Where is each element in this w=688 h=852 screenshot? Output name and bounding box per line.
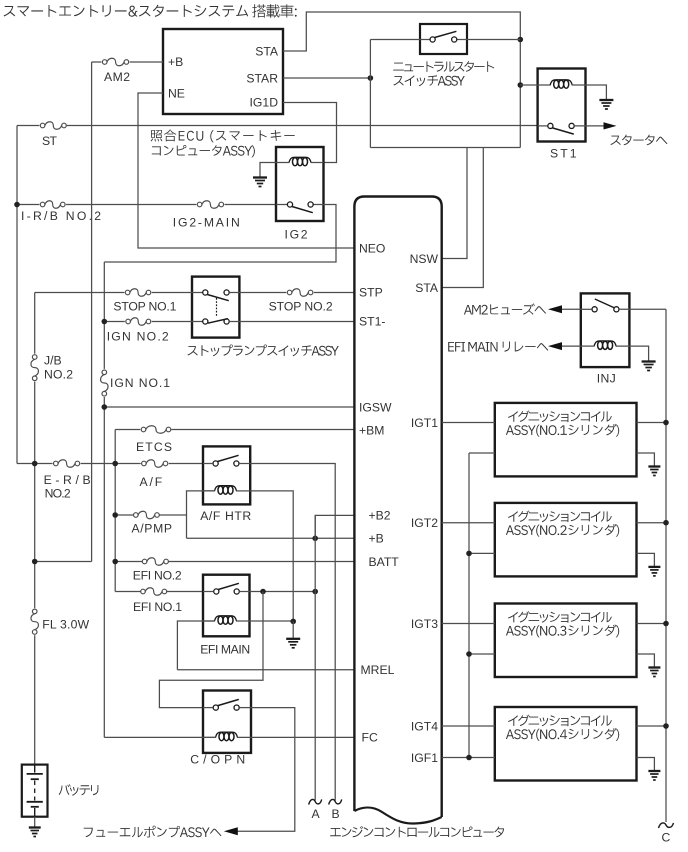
fuse A/F xyxy=(142,460,168,468)
svg-text:STA: STA xyxy=(255,45,279,59)
label スタータへ xyxy=(611,135,668,146)
pin label +BM xyxy=(359,423,384,437)
battery バッテリ box xyxy=(22,765,48,817)
switch contacts stop lamp upper xyxy=(203,290,230,301)
wire IGT3 line xyxy=(442,623,495,625)
wire A/F HTR output to B break xyxy=(250,464,335,801)
wire battery rail x=34.7 xyxy=(34,293,36,765)
wire A-line x=315.2 xyxy=(314,515,316,800)
label IG2 xyxy=(285,228,308,242)
wire IGT4 line xyxy=(442,725,495,727)
svg-text:ETCS: ETCS xyxy=(136,440,172,454)
ground coil NO.3 xyxy=(648,668,660,677)
wire IGF chain NO.3 xyxy=(469,653,495,655)
svg-text:STOP NO.1: STOP NO.1 xyxy=(113,300,176,314)
pin label STA xyxy=(255,45,279,59)
switch contacts INJ xyxy=(592,299,619,312)
IC ignition coil ASSY NO.4 box xyxy=(495,707,637,781)
fuse IGN NO.2 xyxy=(126,318,151,326)
wire I-R/B NO.2 line y=204.5 xyxy=(17,204,276,206)
wire ST line y=125.5 to ST1 relay xyxy=(17,125,538,127)
wire NE to NEO xyxy=(138,93,354,248)
switch contacts neutral start xyxy=(430,31,457,42)
svg-text:A: A xyxy=(312,807,321,821)
relay A/F HTR box xyxy=(203,446,250,504)
svg-text:IGSW: IGSW xyxy=(359,400,392,414)
svg-text:STA: STA xyxy=(415,281,439,295)
junction coil NO.4 right bus xyxy=(663,723,669,729)
label A xyxy=(312,807,321,821)
wire coil NO.1 ground xyxy=(637,453,655,467)
svg-text:FC: FC xyxy=(362,731,378,745)
label ASSY(NO.1シリンダ) xyxy=(506,424,619,437)
wire coil NO.4 ground xyxy=(637,758,655,772)
label イグニッションコイル NO.1 xyxy=(508,411,612,423)
fuse EFI NO.1 xyxy=(141,588,167,596)
label ETCS xyxy=(136,440,172,454)
junction +B / +B2 / A-line xyxy=(312,536,318,542)
wire +B2 from ECU xyxy=(315,515,354,538)
label I-R/B NO.2 xyxy=(21,209,101,223)
IC ignition coil ASSY NO.3 box xyxy=(495,604,637,678)
arrow to fuel pump xyxy=(224,827,238,835)
label コンピュータASSY) xyxy=(152,145,255,157)
wire ground stem shared xyxy=(292,621,294,638)
fuse STOP NO.2 xyxy=(287,289,313,297)
label A/F HTR xyxy=(200,509,251,523)
wire IGT1 line xyxy=(442,422,495,424)
wire AM2 vertical bus x=91.6 xyxy=(91,62,93,562)
wire ST1 output to starter xyxy=(574,125,603,127)
wire STA drop xyxy=(442,148,484,288)
wire neutral switch stubs xyxy=(420,39,467,41)
wire neutral switch output xyxy=(467,39,520,41)
label ASSY(NO.4シリンダ) xyxy=(506,728,619,741)
wire STOP NO.2 line to STP xyxy=(229,292,354,294)
junction EFI MAIN output to +B net xyxy=(312,589,318,595)
wire fuse bus x=104.3 xyxy=(103,262,105,737)
pin label STAR xyxy=(246,72,278,86)
label ST1 xyxy=(550,147,577,161)
wire IGF1 line xyxy=(442,757,495,759)
wire ST1 coil to ground xyxy=(572,85,607,100)
pin label STA xyxy=(415,281,439,295)
svg-text:INJ: INJ xyxy=(597,372,616,386)
junction EFI MAIN output to C/OPN chain xyxy=(260,589,266,595)
svg-text:NO.2: NO.2 xyxy=(45,487,71,501)
wire STAR xyxy=(283,77,370,79)
label 照合ECU (スマートキー xyxy=(151,130,295,143)
wire coil NO.2 output to right bus xyxy=(637,522,667,524)
wire INJ coil right to ground xyxy=(616,346,649,361)
wire battery to ground xyxy=(34,817,36,828)
junction coil NO.3 right bus xyxy=(663,621,669,627)
wire IGN NO.2 line y=321.5 xyxy=(104,321,202,323)
label イグニッションコイル NO.2 xyxy=(508,511,612,523)
ground battery xyxy=(29,828,41,837)
junction coil NO.1 right bus xyxy=(663,420,669,426)
break symbol A xyxy=(309,799,322,804)
svg-text:STP: STP xyxy=(359,286,383,300)
label フューエルポンプASSYへ xyxy=(84,826,222,838)
svg-text:+BM: +BM xyxy=(359,423,384,437)
svg-text:IGT2: IGT2 xyxy=(411,516,438,530)
fuse I-R/B NO.2 xyxy=(40,201,65,209)
junction STA/ST1 coil xyxy=(518,82,524,88)
svg-text:+B: +B xyxy=(369,532,384,546)
ground EFI MAIN / A/F HTR xyxy=(286,639,300,648)
svg-text:NE: NE xyxy=(168,87,185,101)
wire IGF chain NO.2 xyxy=(469,552,495,554)
wire STA top route xyxy=(283,12,520,148)
label EFI NO.2 xyxy=(133,569,182,583)
wire EFI MAIN output xyxy=(250,591,316,593)
relay INJ box xyxy=(581,293,630,367)
junction STA/neutral switch output xyxy=(518,37,524,43)
wire INJ coil left to EFI MAIN relay arrow xyxy=(562,345,595,347)
switch ニュートラルスタートスイッチASSY box xyxy=(420,24,467,54)
junction IGF1 xyxy=(466,755,472,761)
pin label IGT1 xyxy=(411,416,438,430)
pin label NSW xyxy=(410,252,439,266)
junction BATT distribution rail xyxy=(112,559,118,565)
svg-text:E-R/B: E-R/B xyxy=(44,473,91,487)
wire IGSW line xyxy=(104,406,354,408)
coil EFI MAIN xyxy=(215,616,237,625)
wire distribution rail x=115.2 xyxy=(114,430,116,592)
wire E-R/B A/F line y=463.5 xyxy=(17,463,203,465)
junction IGF NO.2 xyxy=(466,551,472,557)
switch contacts ST1 xyxy=(548,123,574,134)
relay EFI MAIN box xyxy=(203,575,250,637)
svg-text:ST1: ST1 xyxy=(550,147,577,161)
label バッテリ xyxy=(59,784,99,796)
pin label BATT xyxy=(369,555,400,569)
wire neutral switch input xyxy=(370,40,420,148)
fuse AM2 xyxy=(102,58,128,66)
svg-text:ST1-: ST1- xyxy=(359,315,385,329)
pin label +B xyxy=(168,55,183,69)
coil IG2 xyxy=(289,157,311,165)
fuse FL 3.0W xyxy=(31,609,39,634)
svg-text:IGN NO.1: IGN NO.1 xyxy=(110,376,170,390)
coil A/F HTR xyxy=(215,486,237,495)
wire battery rail to AM2 connector y=561.5 xyxy=(35,561,92,563)
junction coil NO.2 right bus xyxy=(663,520,669,526)
label IGN NO.1 xyxy=(110,376,170,390)
junction E-R/B distribution rail xyxy=(112,461,118,467)
wire EFI MAIN out chain to C/OPN xyxy=(159,592,263,708)
pin label +B2 xyxy=(369,509,391,523)
arrow to starter xyxy=(604,122,617,129)
pin label IGF1 xyxy=(411,751,438,765)
label B xyxy=(332,807,340,821)
wire C/OPN output to fuel pump xyxy=(237,708,295,832)
fuse J/B NO.2 xyxy=(31,355,39,381)
label STOP NO.1 xyxy=(113,300,176,314)
relay ST1 box xyxy=(538,69,586,142)
label title スマートエントリー&スタートシステム 搭載車: xyxy=(4,4,297,17)
junction BATT battery rail xyxy=(32,559,38,565)
junction STAR into NSW net xyxy=(368,75,374,81)
ground coil NO.1 xyxy=(648,467,660,476)
label STOP NO.2 xyxy=(269,300,333,314)
label AM2ヒューズへ xyxy=(464,303,546,314)
wire IGF chain NO.1 xyxy=(469,452,495,454)
fuse A/PMP xyxy=(134,511,160,519)
svg-text:IGT3: IGT3 xyxy=(411,617,438,631)
svg-text:EFI MAIN: EFI MAIN xyxy=(200,642,250,656)
ground INJ xyxy=(642,362,656,371)
svg-text:AM2: AM2 xyxy=(104,70,130,84)
wire IG2 coil left to ground xyxy=(260,163,290,178)
fuse STOP NO.1 xyxy=(125,289,151,297)
svg-text:STOP NO.2: STOP NO.2 xyxy=(269,300,333,314)
svg-text:I-R/B NO.2: I-R/B NO.2 xyxy=(21,209,101,223)
junction A/PMP feed xyxy=(112,512,118,518)
wire EFI MAIN coil left xyxy=(177,621,215,670)
wire ST1 switch input stub xyxy=(538,125,548,127)
ground coil NO.4 xyxy=(648,771,660,780)
label IG2-MAIN xyxy=(173,216,240,230)
pin label NE xyxy=(168,87,185,101)
wire IG2 switch stubs xyxy=(276,204,324,206)
label A/PMP xyxy=(132,521,173,535)
wire coil NO.1 output to right bus xyxy=(637,422,667,424)
wire IG2 coil right xyxy=(311,162,324,164)
switch contacts IG2 xyxy=(287,202,313,213)
svg-text:J/B: J/B xyxy=(44,354,62,368)
label スイッチASSY xyxy=(394,75,465,86)
svg-text:NO.2: NO.2 xyxy=(44,368,73,382)
svg-text:A/F HTR: A/F HTR xyxy=(200,509,251,523)
svg-text:A/F: A/F xyxy=(140,475,163,489)
coil ST1 xyxy=(550,80,572,88)
junction IGF NO.3 xyxy=(466,651,472,657)
pin label FC xyxy=(362,731,378,745)
wire EFI NO.1 line y=591.5 xyxy=(115,591,203,593)
label IGN NO.2 xyxy=(107,330,169,344)
ground coil NO.2 xyxy=(648,567,660,576)
label C xyxy=(662,831,671,845)
label EFI MAIN xyxy=(200,642,250,656)
wire +B feed from AM2 vertical xyxy=(92,61,163,63)
link stop lamp switch dashed xyxy=(216,298,218,317)
wire B line x=335.2 (already drawn) break symbol B xyxy=(329,799,342,804)
wire C/OPN switch wires xyxy=(203,707,251,709)
svg-text:EFI NO.2: EFI NO.2 xyxy=(133,569,182,583)
wire C/OPN coil left feed from IGN bus xyxy=(104,736,216,738)
pin label IGT2 xyxy=(411,516,438,530)
coil C/OPN xyxy=(216,732,238,741)
label E-R/B xyxy=(44,473,91,487)
label NO.2 (J/B) xyxy=(44,368,73,382)
label INJ xyxy=(597,372,616,386)
wire coil NO.2 ground xyxy=(637,553,655,567)
junction IGN NO.2 feed xyxy=(102,319,108,325)
wire IGF chain vertical x=469 xyxy=(468,453,470,758)
wire +B line y=538.3 xyxy=(187,537,355,539)
junction IGSW feed xyxy=(102,404,108,410)
wire A/F HTR coil left return xyxy=(187,491,216,538)
wire net bar y=147.5 xyxy=(370,147,520,149)
relay C/OPN box xyxy=(203,691,251,753)
fuse IGN NO.1 xyxy=(101,370,109,396)
pin label ST1- xyxy=(359,315,385,329)
label A/F xyxy=(140,475,163,489)
svg-text:BATT: BATT xyxy=(369,555,400,569)
junction I-R/B left rail xyxy=(14,202,20,208)
wire A/F HTR switch wires xyxy=(203,463,250,465)
coil INJ xyxy=(594,341,616,350)
wire coil NO.4 output to right bus xyxy=(637,725,667,727)
wire BATT line y=561.5 with EFI NO.2 xyxy=(115,561,354,563)
svg-text:ST: ST xyxy=(42,134,58,148)
IC ignition coil ASSY NO.2 box xyxy=(495,503,637,577)
label EFI NO.1 xyxy=(133,600,182,614)
wire left rail x=17 xyxy=(16,126,18,464)
wire right bus x=666 to C break xyxy=(665,309,667,822)
svg-text:A/PMP: A/PMP xyxy=(132,521,173,535)
pin label +B xyxy=(369,532,384,546)
svg-text:FL 3.0W: FL 3.0W xyxy=(42,618,89,632)
IC ignition coil ASSY NO.1 box xyxy=(495,403,637,477)
svg-text:C: C xyxy=(662,831,671,845)
svg-text:C/OPN: C/OPN xyxy=(190,753,245,767)
svg-text:IGT4: IGT4 xyxy=(411,719,438,733)
IC 照合ECU (smart key computer ASSY) xyxy=(163,29,283,114)
fuse ETCS xyxy=(141,426,171,434)
switch contacts C/OPN xyxy=(213,699,239,710)
label NO.2 (E-R/B) xyxy=(45,487,71,501)
fuse IG2-MAIN xyxy=(197,201,223,209)
arrow to EFI MAIN relay xyxy=(548,342,562,350)
wire A/PMP line y=515 xyxy=(115,514,186,516)
pin label NEO xyxy=(359,241,385,255)
switch contacts EFI MAIN xyxy=(214,583,240,594)
svg-text:NSW: NSW xyxy=(410,252,439,266)
pin label IGSW xyxy=(359,400,392,414)
wire ST1- line xyxy=(229,321,354,323)
wire NSW drop xyxy=(442,148,467,259)
wire coil NO.3 ground xyxy=(637,654,655,668)
wire ETCS line to +BM xyxy=(115,429,354,431)
label J/B xyxy=(44,354,62,368)
svg-text:STAR: STAR xyxy=(246,72,278,86)
wire A/F HTR coil right to ground stem xyxy=(236,491,293,622)
pin label IGT4 xyxy=(411,719,438,733)
wire STOP NO.1 line y=292.5 xyxy=(35,292,203,294)
label ニュートラルスタート xyxy=(393,61,494,72)
svg-text:+B: +B xyxy=(168,55,183,69)
wire IGT2 line xyxy=(442,522,495,524)
arrow to AM2 fuse xyxy=(548,305,562,313)
svg-text:IGT1: IGT1 xyxy=(411,416,438,430)
wire IG2 output to fuse bus xyxy=(104,205,336,263)
switch contacts A/F HTR xyxy=(213,455,239,466)
ground ST1 xyxy=(599,100,613,109)
fuse ST xyxy=(40,122,66,130)
label ASSY(NO.2シリンダ) xyxy=(506,524,619,537)
pin label IGT3 xyxy=(411,617,438,631)
svg-text:IGN NO.2: IGN NO.2 xyxy=(107,330,169,344)
junction shared ground xyxy=(290,619,296,625)
IC engine control computer box xyxy=(354,197,441,824)
wire EFI MAIN coil right to ground xyxy=(236,620,293,622)
svg-text:+B2: +B2 xyxy=(369,509,391,523)
wire INJ switch right to C vertical xyxy=(619,308,666,310)
break symbol C xyxy=(659,823,674,828)
label ST xyxy=(42,134,58,148)
switch contacts stop lamp lower xyxy=(203,319,230,325)
pin label MREL xyxy=(361,663,395,677)
svg-text:IGF1: IGF1 xyxy=(411,751,438,765)
wire ST1 coil feed xyxy=(520,84,550,86)
label イグニッションコイル NO.4 xyxy=(508,715,612,727)
wire IG1D to IG2 relay coil xyxy=(283,103,337,163)
label ASSY(NO.3シリンダ) xyxy=(506,625,619,638)
wire INJ switch left to AM2 fuse arrow xyxy=(562,308,592,310)
label C/OPN xyxy=(190,753,245,767)
ground IG2 xyxy=(253,178,267,187)
svg-text:EFI NO.1: EFI NO.1 xyxy=(133,600,182,614)
label AM2 xyxy=(104,70,130,84)
label ストップランプスイッチASSY xyxy=(188,345,339,357)
svg-text:IG1D: IG1D xyxy=(250,96,279,110)
wire coil NO.3 output to right bus xyxy=(637,623,667,625)
label FL 3.0W xyxy=(42,618,89,632)
label EFI MAIN リレーへ xyxy=(448,342,548,352)
switch ストップランプスイッチASSY box xyxy=(192,277,239,338)
fuse E-R/B NO.2 xyxy=(54,460,80,468)
svg-text:NEO: NEO xyxy=(359,241,385,255)
label イグニッションコイル NO.3 xyxy=(508,611,612,623)
junction E-R/B battery rail xyxy=(32,461,38,467)
pin label IG1D xyxy=(250,96,279,110)
relay IG2 box xyxy=(276,147,324,221)
label エンジンコントロールコンピュータ xyxy=(330,826,504,837)
fuse EFI NO.2 xyxy=(142,558,168,566)
battery cells xyxy=(27,765,43,817)
svg-text:MREL: MREL xyxy=(361,663,395,677)
pin label STP xyxy=(359,286,383,300)
wire MREL line y=669.8 xyxy=(177,669,354,671)
wire EFI MAIN switch wires xyxy=(203,591,250,593)
svg-text:B: B xyxy=(332,807,340,821)
wire FC line from coil xyxy=(237,736,354,738)
